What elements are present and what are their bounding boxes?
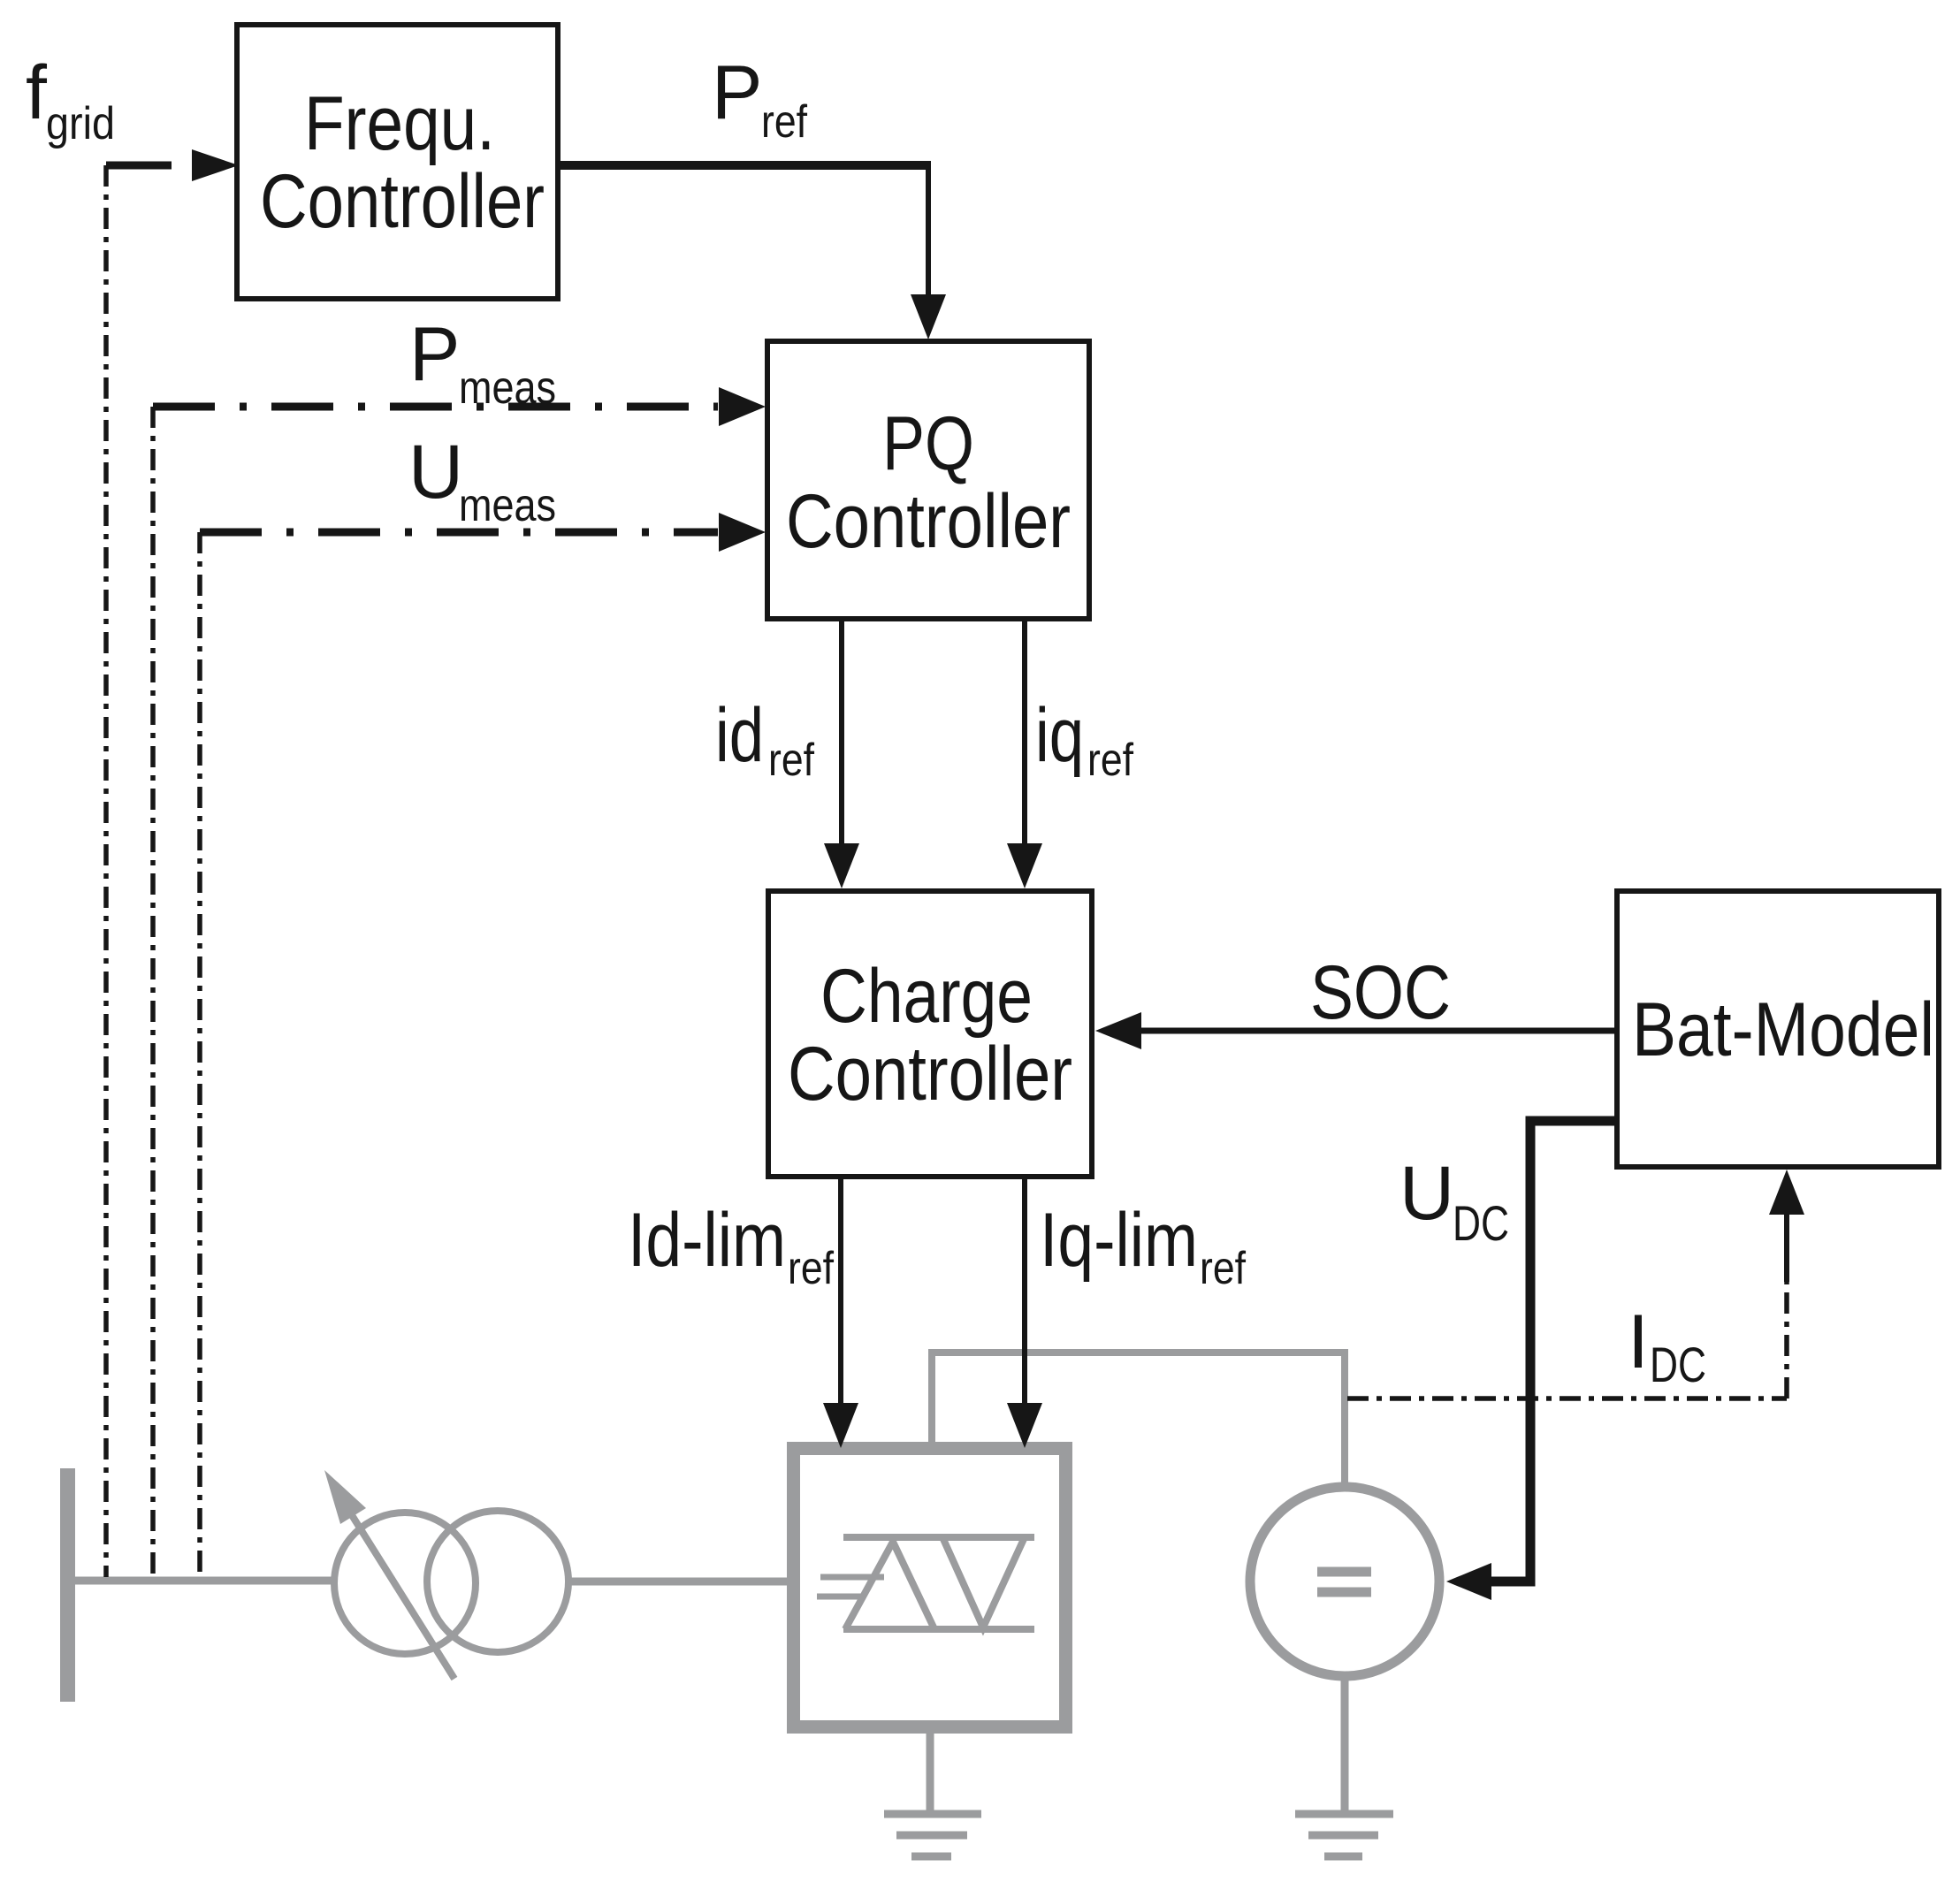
- svg-text:PQ: PQ: [882, 401, 974, 486]
- block Frequ. Controller: [237, 25, 558, 299]
- DC source equals sign: [1317, 1567, 1371, 1577]
- wire Iq-lim_ref arrow: [1022, 1179, 1027, 1406]
- svg-text:P: P: [712, 50, 762, 135]
- ground (DC source side): [1295, 1810, 1393, 1818]
- wire converter bottom to ground: [927, 1728, 934, 1813]
- wire P_meas dash-dot arrow: [153, 403, 718, 411]
- svg-text:meas: meas: [459, 362, 556, 414]
- wire U_DC thick: [1489, 1121, 1617, 1581]
- svg-text:I: I: [1628, 1299, 1649, 1384]
- svg-text:Controller: Controller: [788, 1032, 1072, 1116]
- transformer T1 circle 1: [334, 1513, 476, 1654]
- wire converter top to DC source top: [932, 1353, 1345, 1489]
- svg-text:Charge: Charge: [820, 954, 1033, 1039]
- transformer T1 variable arrow head: [324, 1470, 366, 1524]
- svg-text:Controller: Controller: [786, 479, 1071, 564]
- svg-text:ref: ref: [761, 96, 807, 148]
- converter box (DC/AC): [794, 1449, 1066, 1727]
- block Bat-Model: [1617, 891, 1939, 1167]
- wire f_grid input arrow: [106, 162, 172, 170]
- svg-text:Frequ.: Frequ.: [304, 81, 495, 166]
- DC source (battery equivalent) circle: [1250, 1487, 1439, 1676]
- transformer T1 circle 2: [427, 1511, 568, 1652]
- svg-text:ref: ref: [768, 735, 814, 786]
- wire transformer to converter: [571, 1578, 793, 1586]
- converter symbol DC line 1: [820, 1574, 884, 1581]
- wire DC source bottom to ground: [1341, 1676, 1349, 1813]
- svg-text:U: U: [1399, 1151, 1454, 1236]
- wire SOC arrow: [1137, 1028, 1617, 1034]
- svg-text:id: id: [715, 693, 764, 778]
- converter symbol top rail: [843, 1534, 1034, 1541]
- bus bar (grid busbar): [60, 1468, 75, 1702]
- ground (converter side): [884, 1810, 981, 1818]
- wire id_ref arrow: [839, 621, 844, 846]
- svg-text:Id-lim: Id-lim: [628, 1198, 786, 1283]
- svg-text:f: f: [26, 50, 48, 135]
- wire f_grid vertical dash-dot: [103, 165, 109, 1577]
- svg-text:Controller: Controller: [260, 159, 545, 244]
- svg-text:SOC: SOC: [1310, 950, 1451, 1035]
- svg-text:ref: ref: [1087, 735, 1133, 786]
- transformer T1 variable arrow shaft: [352, 1515, 454, 1679]
- svg-text:meas: meas: [459, 480, 556, 531]
- block Charge Controller: [768, 891, 1092, 1177]
- svg-text:iq: iq: [1035, 693, 1084, 778]
- svg-text:DC: DC: [1453, 1195, 1509, 1251]
- converter symbol triangle wave: [845, 1542, 934, 1629]
- block PQ Controller: [767, 341, 1089, 619]
- svg-text:DC: DC: [1650, 1337, 1706, 1392]
- svg-text:Bat-Model: Bat-Model: [1632, 987, 1934, 1072]
- converter symbol bottom rail: [843, 1626, 1034, 1633]
- wire iq_ref arrow: [1022, 621, 1027, 846]
- svg-text:P: P: [409, 312, 460, 397]
- wire P_ref: [558, 161, 931, 170]
- svg-text:grid: grid: [46, 98, 115, 149]
- converter symbol DC line 2: [817, 1594, 866, 1600]
- wire busbar to transformer: [75, 1577, 334, 1585]
- wire U_meas dash-dot arrow: [200, 529, 718, 537]
- wire I_DC dash-dot: [1347, 1396, 1787, 1401]
- svg-text:Iq-lim: Iq-lim: [1040, 1198, 1198, 1283]
- svg-text:ref: ref: [788, 1243, 834, 1294]
- wire Id-lim_ref arrow: [838, 1179, 843, 1406]
- svg-text:ref: ref: [1200, 1243, 1246, 1294]
- svg-text:U: U: [408, 430, 463, 514]
